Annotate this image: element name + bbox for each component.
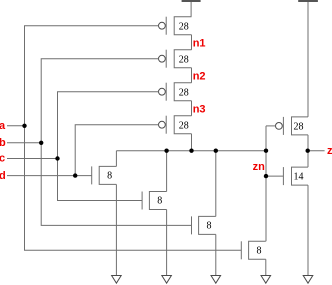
wire input d to N1 gate bbox=[7, 175, 92, 177]
wire a-line down to N4 gate bbox=[25, 126, 242, 251]
svg-text:n3: n3 bbox=[193, 104, 206, 116]
wire N1 source to ground bbox=[115, 184, 117, 275]
ground N1 bbox=[112, 276, 122, 284]
svg-text:28: 28 bbox=[179, 87, 189, 98]
wire N4 source to ground bbox=[265, 259, 267, 275]
wire input b stub bbox=[7, 142, 41, 144]
wire gate P5 from zn bbox=[266, 125, 276, 127]
transistor N2 (nmos 8) bbox=[142, 192, 167, 210]
node b junction bbox=[39, 141, 43, 145]
wire N3 drain riser bbox=[215, 151, 217, 217]
svg-text:14: 14 bbox=[294, 171, 304, 182]
junction zn-N5gate bbox=[264, 174, 268, 178]
power VDD bar right bbox=[298, 0, 318, 117]
wire b-line down to N3 gate bbox=[41, 143, 191, 226]
transistor P2 (pmos 28) bbox=[159, 50, 192, 68]
wire input c stub bbox=[7, 158, 58, 160]
transistor P4 (pmos 28) bbox=[159, 116, 192, 134]
svg-text:28: 28 bbox=[179, 21, 189, 32]
wire zn vertical bbox=[265, 126, 267, 241]
svg-text:8: 8 bbox=[157, 196, 162, 207]
svg-text:d: d bbox=[0, 170, 6, 182]
svg-text:28: 28 bbox=[294, 122, 304, 133]
wire z output bbox=[308, 150, 325, 152]
svg-text:c: c bbox=[0, 153, 5, 165]
svg-text:n2: n2 bbox=[193, 71, 206, 83]
wire P5 drain to z bbox=[307, 135, 309, 151]
svg-text:z: z bbox=[327, 145, 332, 157]
wire gate P3 from c-line bbox=[58, 92, 159, 159]
junction rail-N2 bbox=[164, 149, 168, 153]
wire P3-P4 (node n3) bbox=[191, 101, 193, 116]
wire N2 source to ground bbox=[166, 210, 168, 276]
ground N3 bbox=[211, 276, 221, 284]
wire N1 drain riser bbox=[115, 151, 117, 167]
wire N5 source to ground bbox=[307, 185, 309, 275]
power VDD bar left bbox=[182, 0, 201, 17]
svg-text:a: a bbox=[0, 120, 6, 132]
transistor N4 (nmos 8) bbox=[241, 241, 265, 259]
wire input a stub bbox=[7, 125, 25, 127]
wire P2-P3 (node n2) bbox=[191, 68, 193, 83]
svg-text:8: 8 bbox=[257, 246, 262, 257]
ground N4 bbox=[261, 276, 271, 284]
svg-text:8: 8 bbox=[207, 221, 212, 232]
ground N2 bbox=[162, 276, 172, 284]
transistor P5 (pmos 28, output) bbox=[276, 117, 309, 135]
junction z bbox=[306, 149, 310, 153]
svg-text:28: 28 bbox=[179, 54, 189, 65]
junction rail-zn bbox=[264, 149, 268, 153]
wire gate P4 from d-line bbox=[75, 125, 159, 176]
wire gate N5 from zn bbox=[266, 175, 283, 177]
junction rail-P4 bbox=[189, 149, 193, 153]
junction dots bbox=[22, 124, 310, 179]
node c junction bbox=[55, 156, 59, 160]
wire N2 drain riser bbox=[166, 151, 168, 192]
node d junction bbox=[73, 173, 77, 177]
wire P1-P2 (node n1) bbox=[191, 35, 193, 50]
zn rail bbox=[116, 150, 266, 152]
junction rail-N3 bbox=[214, 149, 218, 153]
svg-text:8: 8 bbox=[107, 171, 112, 182]
svg-text:n1: n1 bbox=[193, 38, 206, 50]
wire c-line down to N2 gate bbox=[58, 159, 143, 201]
wire P4 drain to zn rail bbox=[191, 134, 193, 151]
transistor N1 (nmos 8) bbox=[92, 166, 117, 184]
wire N3 source to ground bbox=[215, 234, 217, 275]
svg-text:zn: zn bbox=[253, 161, 266, 173]
ground N5 bbox=[303, 276, 313, 284]
svg-text:b: b bbox=[0, 137, 6, 149]
wire gate P2 from b-line bbox=[41, 59, 159, 143]
transistor N3 (nmos 8) bbox=[192, 216, 216, 234]
transistor P3 (pmos 28) bbox=[159, 83, 192, 101]
svg-text:28: 28 bbox=[179, 120, 189, 131]
wire gate P1 from a-line bbox=[25, 26, 159, 126]
node a junction bbox=[22, 124, 26, 128]
transistor P1 (pmos 28) bbox=[159, 17, 192, 35]
transistor N5 (nmos 14, output) bbox=[283, 167, 308, 185]
wire N5 drain riser bbox=[307, 151, 309, 167]
